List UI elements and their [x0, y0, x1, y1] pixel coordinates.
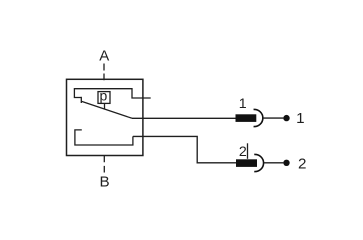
- node 2 dot: [283, 160, 289, 166]
- switch lever: [81, 101, 132, 118]
- svg-text:p: p: [100, 88, 108, 104]
- wire from socket 1 to node 1: [263, 117, 283, 119]
- actuator stem: [104, 103, 106, 109]
- wire 2 (bottom bracket to connector 2): [133, 136, 236, 162]
- pin label 2 tick: [247, 143, 249, 159]
- component box (pressure switch): [67, 79, 143, 155]
- connector pin 2 socket arc: [254, 154, 263, 171]
- contact pivot tick: [80, 97, 82, 103]
- fixed contact top bracket with terminal stub: [74, 89, 150, 98]
- svg-text:2: 2: [298, 155, 306, 172]
- wire 1 (lever to connector 1): [132, 117, 236, 119]
- connector pin 1 socket arc: [254, 109, 263, 126]
- bottom contact bracket: [75, 130, 133, 145]
- pressure actuator box: [98, 92, 110, 104]
- svg-text:B: B: [100, 174, 110, 191]
- svg-text:1: 1: [239, 96, 247, 112]
- svg-text:A: A: [99, 48, 109, 65]
- connector pin 2 body: [236, 159, 257, 167]
- dashed leader B: [103, 156, 105, 173]
- svg-text:1: 1: [296, 110, 304, 127]
- node 1 dot: [283, 115, 289, 121]
- dashed leader A: [103, 64, 105, 81]
- connector pin 1 body: [236, 114, 257, 122]
- wire from socket 2 to node 2: [264, 162, 284, 164]
- svg-text:2: 2: [239, 144, 247, 160]
